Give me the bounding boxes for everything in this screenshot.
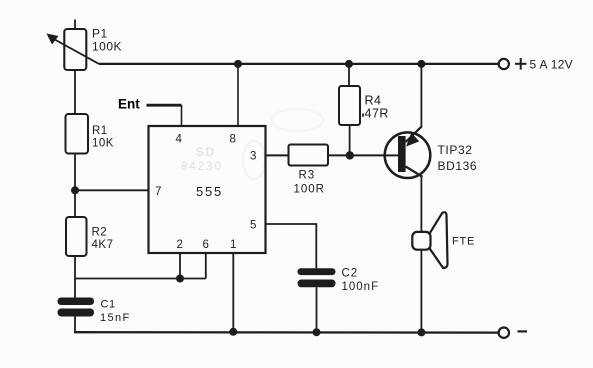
terminal negative [499,328,509,338]
svg-text:100K: 100K [92,40,122,54]
svg-text:15nF: 15nF [100,312,131,324]
terminal +V [499,59,509,69]
label +5 A 12V [515,63,527,65]
wire Ent to pin 4 [181,105,183,126]
svg-text:47R: 47R [365,107,389,121]
wire pin 5 to C2 [266,224,317,268]
node junction at pin7 tap [71,186,79,194]
wire Ent input [147,104,182,107]
wire top rail to R4 [348,64,350,86]
svg-text:R2: R2 [92,227,108,239]
speaker FTE cone [430,212,448,268]
wire stub above P1 [74,20,76,30]
svg-text:555: 555 [196,184,223,199]
transistor Q1 base lead [384,154,398,156]
transistor Q1 circle [385,132,431,178]
resistor R1 [66,114,89,154]
wire pin 8 to top rail [237,64,239,126]
svg-text:Ent: Ent [118,96,140,111]
top rail wire [99,63,498,65]
svg-text:100R: 100R [294,184,326,196]
op-amp/timer U1 555 box [149,126,266,253]
svg-text:R4: R4 [365,94,382,108]
label minus [518,330,528,332]
svg-text:C1: C1 [101,298,116,310]
svg-text:BD136: BD136 [438,159,478,173]
node junction pin 8 / rail [234,60,242,68]
wire R2 to C1 [74,256,76,298]
node junction C2 / bottom rail [313,328,321,336]
wire R3 to transistor base [328,154,398,156]
node junction speaker / bottom rail [417,328,425,336]
resistor R2 [66,217,87,256]
svg-text:SD: SD [196,147,216,159]
svg-text:100nF: 100nF [342,281,380,293]
svg-text:P1: P1 [92,27,108,41]
wire R1 to R2 [74,154,76,218]
watermark scan artifact SD 84230 [181,109,323,179]
potentiometer P1 body [64,29,86,70]
wire pin 6 to wire [205,253,207,279]
resistor R4 [339,86,360,125]
svg-text:3: 3 [250,151,256,163]
svg-text:R1: R1 [92,125,108,137]
svg-text:5: 5 [250,219,256,231]
svg-text:8: 8 [230,134,236,146]
transistor Q1 emitter arrow [406,133,419,147]
wire pin 3 to R3 [266,154,289,156]
svg-text:4: 4 [176,134,183,146]
svg-text:2: 2 [177,239,183,251]
wire P1 to R1 [74,70,76,114]
capacitor C2 plates [298,268,336,275]
node junction pin 2 [176,275,184,283]
wire to pins 2 and 6 [75,278,206,280]
svg-text:4K7: 4K7 [92,239,114,251]
svg-text:10K: 10K [92,138,114,150]
node junction R4 / rail [345,60,353,68]
svg-text:TIP32: TIP32 [438,143,473,157]
svg-text:R3: R3 [299,169,316,181]
wire C2 to bottom rail [316,287,318,332]
resistor R3 [289,145,329,166]
bottom rail wire [74,331,498,334]
svg-text:C2: C2 [342,268,359,280]
node junction emitter / rail [417,60,425,68]
speaker FTE driver [412,232,430,250]
wire pin 1 to bottom rail [232,253,234,332]
svg-text:FTE: FTE [452,236,475,248]
svg-text:6: 6 [203,239,209,251]
wire to pin 7 [75,189,149,191]
capacitor C1 plates [58,298,95,306]
node junction pin 1 / bottom rail [229,328,237,336]
svg-text:7: 7 [155,186,161,198]
wire emitter to top rail [420,64,422,128]
wire C1 to bottom rail [74,317,76,333]
svg-text:5 A 12V: 5 A 12V [530,57,573,71]
transistor Q1 base bar [398,136,406,172]
wire R4 to base node [349,125,351,155]
potentiometer P1 wiper arrow [52,38,99,64]
svg-text:1: 1 [230,239,236,251]
wire pin 2 to wire [179,253,181,279]
svg-text:84230: 84230 [181,161,223,173]
node junction R4/base [346,151,354,159]
transistor Q1 emitter lead [406,126,422,142]
transistor Q1 collector lead [406,167,423,177]
wire collector to speaker and bottom rail [420,177,422,333]
